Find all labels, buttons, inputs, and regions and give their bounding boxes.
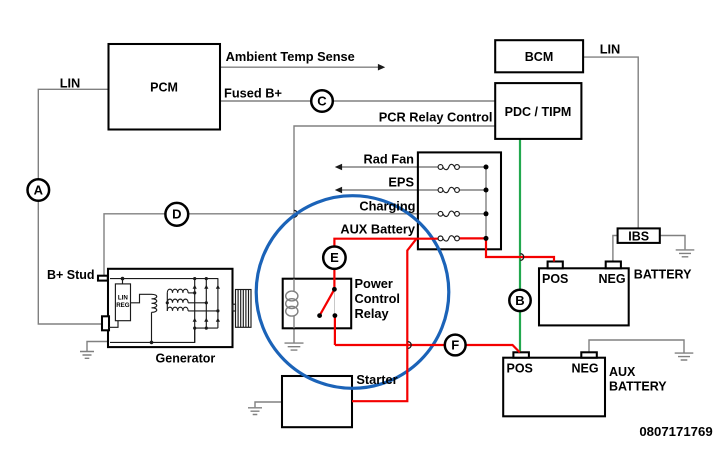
- arrowhead Ambient Temp Sense: [378, 64, 385, 71]
- AUX battery NEG terminal: [581, 352, 597, 357]
- wire PCR Relay Control from PDC/TIPM down to relay coil: [294, 126, 495, 279]
- ground generator: [80, 352, 94, 359]
- stator coil phase 1: [167, 289, 188, 293]
- junction stator left: [166, 301, 169, 304]
- stator star point vertical: [166, 293, 168, 311]
- wire row2 fuse leads: [418, 189, 486, 191]
- wire IBS right lead to ground: [660, 236, 685, 250]
- svg-text:PCR Relay Control: PCR Relay Control: [379, 110, 493, 125]
- generator outer box: [108, 269, 233, 347]
- blue highlight circle: [256, 196, 449, 389]
- BCM module: [495, 40, 583, 72]
- svg-text:Ambient Temp Sense: Ambient Temp Sense: [226, 49, 355, 64]
- AUX battery box: [503, 358, 605, 417]
- wire Charging from fuse box through D to generator top stud, hop over PCR wire: [104, 214, 418, 276]
- connector A: [28, 179, 50, 201]
- svg-text:E: E: [330, 250, 339, 265]
- diode marks top row: [193, 285, 220, 289]
- red wire fuse row 4 to junction: [459, 237, 486, 239]
- red wire relay pin1 up through E to AUX Battery fuse row: [334, 239, 438, 290]
- junction dots rectifier bottom: [193, 327, 196, 330]
- svg-text:BATTERY: BATTERY: [609, 380, 667, 394]
- wire IBS left lead to battery NEG: [613, 236, 618, 262]
- svg-text:LIN: LIN: [60, 75, 81, 90]
- relay open contact guide: [333, 289, 335, 315]
- connector hatch lines: [238, 290, 248, 328]
- fuse F1 Rad Fan: [438, 164, 459, 169]
- stator coil phase 2: [167, 299, 188, 303]
- ground starter: [248, 408, 262, 415]
- fuse box: [418, 152, 501, 249]
- wire phase3 to rectifier leg 3: [188, 310, 218, 312]
- field coil: [152, 294, 157, 312]
- svg-text:Generator: Generator: [156, 352, 216, 366]
- svg-text:LIN: LIN: [600, 42, 621, 57]
- rectifier leg 2: [205, 279, 207, 329]
- red wire starter feed branch: [352, 239, 417, 402]
- junction LIN REG top: [121, 277, 125, 281]
- svg-text:B: B: [515, 293, 524, 308]
- wire generator ground lead: [87, 342, 109, 352]
- ground IBS: [676, 250, 695, 257]
- svg-text:F: F: [451, 338, 459, 353]
- crossover hop mark at green wire: [520, 254, 523, 261]
- arrowhead Rad Fan: [335, 164, 342, 171]
- svg-text:NEG: NEG: [599, 272, 626, 286]
- svg-text:Power: Power: [355, 276, 393, 291]
- wire LIN REG bottom to B+ stud: [109, 321, 118, 328]
- svg-text:AUX Battery: AUX Battery: [340, 222, 416, 237]
- svg-text:LIN: LIN: [118, 295, 128, 302]
- junction dots rectifier top: [193, 277, 196, 280]
- arrowhead EPS: [335, 187, 342, 194]
- wire AUX battery NEG to ground: [589, 340, 684, 353]
- svg-text:BATTERY: BATTERY: [634, 268, 692, 282]
- wire Ambient Temp Sense from PCM: [220, 66, 378, 68]
- red wire F line to AUX battery POS: [335, 345, 520, 352]
- svg-text:PCM: PCM: [150, 81, 178, 95]
- svg-text:0807171769: 0807171769: [639, 424, 712, 439]
- svg-text:PDC / TIPM: PDC / TIPM: [505, 105, 572, 119]
- generator internal bottom wire: [110, 328, 195, 342]
- ground relay coil: [293, 328, 295, 342]
- svg-text:REG: REG: [116, 302, 130, 309]
- wire phase2 to rectifier leg 2: [188, 302, 206, 304]
- wire LIN from PCM left to connector A: [38, 89, 108, 178]
- LIN REG regulator box: [115, 284, 130, 321]
- svg-text:IBS: IBS: [628, 229, 649, 243]
- rectifier leg 1: [194, 279, 196, 343]
- junction field coil bottom: [150, 341, 154, 345]
- generator top stud (LIN): [98, 276, 108, 281]
- wire LIN REG top lead: [122, 279, 124, 284]
- connector E: [323, 247, 345, 269]
- diode marks bottom row: [193, 318, 220, 322]
- red wire relay switch arm: [320, 289, 335, 315]
- svg-text:BCM: BCM: [525, 50, 553, 64]
- AUX battery POS terminal: [513, 352, 529, 357]
- wire Rad Fan from fuse box: [340, 166, 418, 168]
- svg-text:NEG: NEG: [572, 361, 599, 375]
- green wire PDC/TIPM to AUX battery POS: [519, 139, 521, 353]
- fuse F2 EPS: [438, 187, 459, 192]
- wire Fused B+ from PCM through C to PDC/TIPM: [220, 100, 495, 102]
- svg-text:Fused B+: Fused B+: [224, 86, 282, 101]
- svg-text:Charging: Charging: [359, 198, 415, 213]
- wire LIN from BCM to IBS: [583, 57, 638, 228]
- svg-text:Starter: Starter: [356, 372, 397, 387]
- battery box: [539, 268, 629, 325]
- PDC/TIPM module: [495, 83, 581, 139]
- PCM module: [109, 44, 221, 130]
- svg-text:EPS: EPS: [388, 174, 414, 189]
- connector B: [509, 290, 530, 311]
- wire starter ground lead: [255, 402, 282, 407]
- relay box: [283, 279, 352, 329]
- connector C: [311, 90, 333, 112]
- red wire relay pin3 down to F line: [334, 316, 336, 345]
- wire from connector A down to B+ stud: [38, 201, 102, 324]
- svg-text:C: C: [317, 94, 327, 109]
- battery NEG terminal: [606, 262, 621, 269]
- crossover hop mark at PCR wire: [294, 210, 297, 217]
- wire row1 fuse leads: [418, 166, 486, 168]
- rectifier leg 3: [217, 279, 219, 329]
- battery POS terminal: [548, 262, 563, 269]
- svg-text:Control: Control: [355, 291, 401, 306]
- connector F: [445, 335, 466, 356]
- svg-text:Rad Fan: Rad Fan: [364, 151, 415, 166]
- generator connector block: [236, 290, 252, 328]
- junction dots fuse bus: [484, 165, 489, 170]
- crossover hop mark at starter feed wire: [408, 342, 411, 349]
- svg-text:POS: POS: [507, 361, 533, 375]
- svg-text:A: A: [34, 183, 44, 198]
- svg-text:AUX: AUX: [609, 365, 636, 379]
- connector tab: [233, 304, 236, 311]
- wire LIN REG to field coil: [131, 294, 152, 303]
- rectifier bottom bus: [195, 327, 218, 329]
- wire EPS from fuse box: [340, 189, 418, 191]
- starter box: [282, 376, 352, 427]
- fuse F3 Charging: [438, 211, 459, 216]
- generator B+ stud: [102, 316, 109, 330]
- svg-text:POS: POS: [542, 272, 568, 286]
- IBS module: [618, 228, 660, 243]
- relay coil: [293, 279, 295, 329]
- fuse F4 AUX Battery: [438, 236, 459, 241]
- junction dots phases: [193, 291, 196, 294]
- svg-text:D: D: [172, 207, 181, 222]
- wire fuse output bus vertical in fuse box: [485, 167, 487, 238]
- wire field coil to bottom: [151, 312, 153, 342]
- generator internal top bus: [110, 278, 218, 280]
- svg-text:B+ Stud: B+ Stud: [47, 268, 95, 282]
- ground AUX battery: [675, 353, 694, 360]
- red wire junction down and right to battery POS with hop over green: [486, 238, 554, 261]
- connector D: [165, 203, 188, 226]
- wire phase1 to rectifier leg 1: [188, 292, 195, 294]
- stator coil phase 3: [167, 307, 188, 311]
- relay pin junction dots: [332, 287, 337, 292]
- svg-text:Relay: Relay: [355, 306, 390, 321]
- wire row3 fuse leads: [418, 213, 486, 215]
